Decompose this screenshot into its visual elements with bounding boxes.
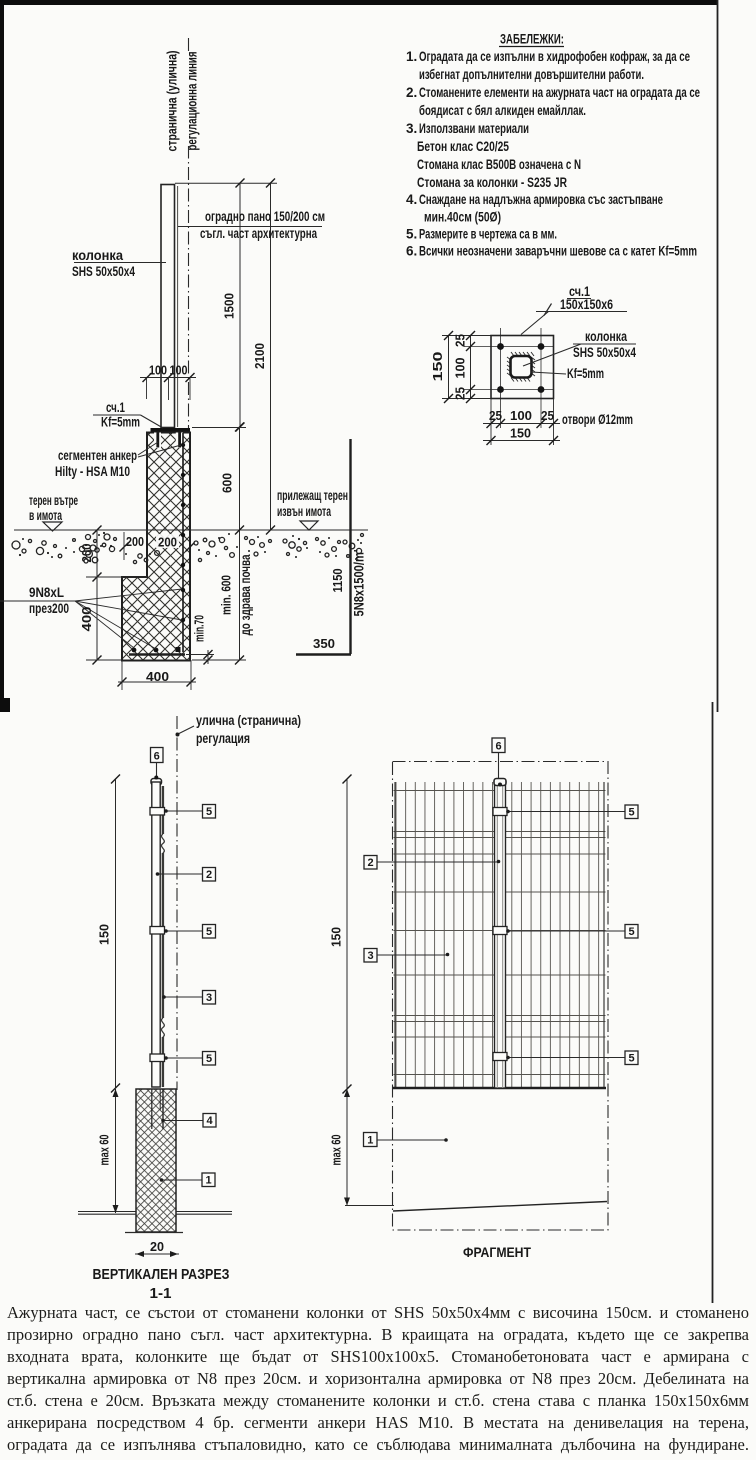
- svg-text:5: 5: [628, 1053, 634, 1065]
- step line horizontal with 350: [296, 653, 351, 655]
- hole axis vertical left: [500, 328, 502, 428]
- rebar squares on footing: [132, 647, 181, 652]
- svg-text:Стоманените елементи на ажурна: Стоманените елементи на ажурната част на…: [419, 85, 700, 100]
- leader to Kf label: [531, 372, 566, 374]
- underline of сч.1: [567, 298, 591, 300]
- svg-text:Бетон клас C20/25: Бетон клас C20/25: [417, 139, 509, 154]
- svg-text:5: 5: [206, 926, 212, 938]
- svg-text:100: 100: [454, 357, 468, 378]
- base plate (section): [151, 428, 191, 433]
- sheet frame left bar: [0, 0, 4, 700]
- marker box 5a (section): [203, 805, 216, 819]
- paragraph line 6: [7, 1413, 749, 1435]
- marker box 5c (fragment): [625, 1051, 638, 1065]
- panel break wave bottom: [161, 1018, 164, 1037]
- bottom dimension 25/100/25: [483, 423, 560, 425]
- svg-text:200: 200: [158, 536, 177, 550]
- svg-text:200: 200: [126, 535, 144, 549]
- dimension line 100/100: [140, 377, 196, 379]
- svg-text:350: 350: [313, 637, 335, 651]
- marker box 5c leader (section): [165, 1057, 202, 1059]
- marker box 2 (fragment): [364, 856, 377, 870]
- sheet frame top bar: [0, 0, 718, 5]
- svg-text:прилежащ терен: прилежащ терен: [277, 488, 348, 503]
- marker box 5b (section): [203, 925, 216, 939]
- svg-text:150: 150: [510, 427, 531, 441]
- mesh vertical wires: [395, 782, 605, 1088]
- concrete wall and footing (hatched): [122, 433, 190, 661]
- dimension line 1500: [239, 183, 241, 427]
- ground double line left: [78, 1211, 136, 1213]
- svg-text:400: 400: [80, 606, 94, 631]
- dimension line 150 (section): [115, 779, 117, 1088]
- leader line for panel label: [178, 226, 322, 228]
- PAGE2 SVG placeholder: [0, 698, 756, 1310]
- marker box 2 leader (fragment): [377, 861, 497, 863]
- right dimension line 600 / min600: [239, 427, 241, 660]
- svg-text:25: 25: [489, 409, 502, 423]
- level triangle right: [300, 521, 318, 530]
- extension lines under 100/100: [146, 378, 148, 400]
- svg-text:Използвани материали: Използвани материали: [419, 121, 529, 136]
- svg-text:3.: 3.: [406, 121, 417, 136]
- marker box 5a leader (fragment): [507, 811, 625, 813]
- svg-text:1500: 1500: [223, 293, 237, 319]
- marker box 4 leader (section): [164, 1120, 204, 1122]
- svg-text:SHS 50x50x4: SHS 50x50x4: [72, 264, 135, 279]
- svg-text:4.: 4.: [406, 192, 417, 207]
- mesh bottom rail thick line: [393, 1087, 606, 1090]
- marker box 3 leader (fragment): [377, 954, 447, 956]
- marker box 5b leader (section): [165, 930, 202, 932]
- svg-text:2: 2: [206, 869, 212, 881]
- paragraph line 3: [7, 1347, 749, 1369]
- leader to колонка label: [523, 344, 636, 366]
- segment anchor right: [176, 433, 183, 449]
- min.70 dimension: [207, 650, 209, 664]
- wall vertical rebar line: [182, 433, 184, 652]
- svg-text:извън имота: извън имота: [277, 504, 331, 519]
- svg-text:5.: 5.: [406, 227, 417, 242]
- bottom dimension 150: [483, 440, 560, 442]
- bolt holes: [497, 343, 544, 393]
- svg-text:странична (улична): странична (улична): [165, 51, 180, 152]
- svg-text:терен вътре: терен вътре: [29, 493, 78, 508]
- weld sleeve 2 (fragment): [493, 927, 507, 935]
- regulation dash-dot line: [188, 38, 190, 429]
- extension line top edge: [442, 335, 491, 337]
- leader from box 6 (fragment): [498, 753, 500, 779]
- bottom extension lines: [490, 399, 492, 446]
- marker box 1 leader (section): [162, 1179, 202, 1181]
- svg-text:25: 25: [454, 334, 468, 347]
- svg-text:колонка: колонка: [585, 329, 627, 344]
- top extension line: [175, 182, 277, 184]
- leader from box 6: [156, 763, 158, 779]
- svg-text:min. 600: min. 600: [220, 575, 234, 615]
- svg-text:9N8xL: 9N8xL: [29, 585, 64, 600]
- svg-text:оградно пано 150/200 см: оградно пано 150/200 см: [205, 209, 325, 224]
- svg-text:4: 4: [206, 1115, 213, 1127]
- step line vertical (right): [349, 439, 351, 654]
- sheet 2 right border line: [712, 702, 714, 1303]
- extension line bottom edge: [442, 398, 491, 400]
- svg-text:улична (странична): улична (странична): [196, 713, 301, 728]
- svg-text:2.: 2.: [406, 85, 417, 100]
- svg-text:150x150x6: 150x150x6: [560, 297, 613, 312]
- bottom dimension 400: [121, 660, 123, 690]
- marker box 5c leader (fragment): [507, 1057, 625, 1059]
- svg-text:5: 5: [206, 806, 212, 818]
- node dot on regulation line: [176, 733, 180, 737]
- svg-text:ВЕРТИКАЛЕН РАЗРЕЗ: ВЕРТИКАЛЕН РАЗРЕЗ: [93, 1266, 230, 1283]
- svg-text:SHS 50x50x4: SHS 50x50x4: [573, 345, 636, 360]
- dimension max 60 (fragment): [346, 1089, 348, 1206]
- svg-text:6: 6: [154, 751, 160, 763]
- svg-text:150: 150: [431, 351, 445, 381]
- svg-text:Kf=5mm: Kf=5mm: [567, 366, 604, 381]
- svg-text:отвори Ø12mm: отвори Ø12mm: [562, 412, 633, 427]
- marker box 3 leader (section): [164, 996, 202, 998]
- svg-text:20: 20: [150, 1240, 164, 1254]
- weld sleeve 3 (section): [150, 1054, 165, 1062]
- left outer dimension 150: [448, 336, 450, 399]
- svg-text:1: 1: [367, 1135, 373, 1147]
- svg-text:150: 150: [330, 927, 344, 947]
- hole axis line top row: [464, 346, 554, 348]
- marker box 5b (fragment): [625, 925, 638, 939]
- weld sleeve 1 (section): [150, 808, 165, 816]
- panel break wave top: [161, 834, 164, 853]
- svg-text:1150: 1150: [331, 568, 345, 592]
- hole axis line bottom row: [464, 389, 554, 391]
- weld sleeve 3 (fragment): [493, 1053, 507, 1061]
- weld sleeve 2 (section): [150, 927, 165, 935]
- scan mark top-left: [0, 698, 10, 712]
- SHS 50x50x4 tube section: [511, 356, 532, 378]
- extension line at plate level: [192, 427, 246, 429]
- paragraph line 2: [7, 1325, 749, 1347]
- svg-text:2: 2: [367, 857, 373, 869]
- weld fringe around SHS: [507, 352, 535, 382]
- svg-text:през200: през200: [29, 601, 69, 616]
- marker box 5a (fragment): [625, 805, 638, 819]
- marker box 1 leader (fragment): [377, 1139, 446, 1141]
- centre post (fragment): [495, 785, 506, 1088]
- weld symbol slash: [544, 304, 552, 316]
- svg-text:колонка: колонка: [72, 248, 123, 263]
- extension line at step: [86, 576, 147, 578]
- leader to plate: [141, 415, 164, 428]
- svg-text:25: 25: [454, 387, 468, 400]
- marker box 3 (section): [203, 991, 216, 1005]
- svg-text:3: 3: [367, 950, 373, 962]
- svg-text:ЗАБЕЛЕЖКИ:: ЗАБЕЛЕЖКИ:: [500, 32, 564, 47]
- extension line at footing bottom left: [86, 659, 122, 661]
- paragraph line 4: [7, 1369, 749, 1391]
- segment anchor left: [154, 433, 161, 449]
- svg-text:съгл. част архитектурна: съгл. част архитектурна: [200, 226, 317, 241]
- extension line at footing bottom right: [192, 659, 246, 661]
- regulation dash-dot line (section): [176, 716, 178, 1090]
- dimension max 60 (section): [115, 1089, 117, 1213]
- PAGE1 SVG placeholder: [0, 0, 756, 714]
- dimension line 150 (fragment): [346, 779, 348, 1089]
- marker box 6 (section): [151, 748, 164, 763]
- svg-text:Стомана клас B500B означена с: Стомана клас B500B означена с N: [417, 157, 581, 172]
- left inner dimension 25/100/25: [470, 336, 472, 399]
- svg-text:25: 25: [541, 409, 554, 423]
- fragment dash-dot boundary: [393, 762, 609, 1231]
- svg-text:регулация: регулация: [196, 731, 250, 746]
- mesh horizontal wires: [394, 791, 606, 1075]
- svg-text:Снаждане на надлъжна армировка: Снаждане на надлъжна армировка със застъ…: [419, 192, 663, 207]
- marker box 3 (fragment): [364, 949, 377, 963]
- node dot below cap: [498, 783, 502, 787]
- left vertical dimension line: [96, 530, 98, 660]
- post cap (fragment): [494, 779, 506, 786]
- svg-text:100: 100: [149, 364, 167, 378]
- rebar leader lines: [0, 600, 75, 602]
- marker box 2 (section): [203, 868, 216, 882]
- svg-text:регулационна линия: регулационна линия: [185, 52, 200, 151]
- steel column (post) SHS 50x50x4: [161, 185, 175, 428]
- marker box 2 leader (section): [158, 873, 202, 875]
- svg-text:1: 1: [205, 1175, 211, 1187]
- svg-text:100: 100: [510, 409, 532, 423]
- svg-text:до здрава почва: до здрава почва: [238, 554, 253, 635]
- svg-text:мин.40см (50Ø): мин.40см (50Ø): [424, 210, 501, 225]
- marker box 1 (fragment): [364, 1133, 378, 1147]
- svg-text:Размерите в чертежа са в мм.: Размерите в чертежа са в мм.: [419, 227, 557, 242]
- svg-text:6: 6: [495, 741, 501, 753]
- svg-text:Всички неозначени заваръчни ше: Всички неозначени заваръчни шевове са с …: [419, 244, 697, 259]
- foundation (section) hatched: [136, 1089, 176, 1232]
- plate 150x150x6 outline: [491, 336, 554, 399]
- post (section): [152, 782, 160, 1087]
- rebar dots on wall: [181, 443, 185, 622]
- level triangle left: [43, 522, 62, 531]
- underline of Kf label: [93, 414, 141, 416]
- svg-text:5: 5: [628, 807, 634, 819]
- svg-text:2100: 2100: [253, 343, 267, 369]
- soil scatter circles: [12, 534, 364, 564]
- soil scatter dots: [19, 532, 362, 560]
- paragraph line 7: [7, 1435, 749, 1457]
- mesh right edge wire: [603, 782, 605, 1088]
- post cap (section): [151, 779, 162, 786]
- svg-text:6.: 6.: [406, 244, 417, 259]
- paragraph line 5: [7, 1391, 749, 1413]
- svg-text:3: 3: [206, 992, 212, 1004]
- svg-text:600: 600: [221, 473, 235, 493]
- weld sleeve 1 (fragment): [493, 808, 507, 816]
- leader to regulation line: [178, 726, 194, 734]
- ground line: [14, 529, 368, 531]
- hole axis vertical right: [540, 328, 542, 428]
- marker box 5a leader (section): [165, 810, 202, 812]
- mesh left edge wire: [394, 782, 396, 1088]
- svg-text:Стомана за колонки - S235 JR: Стомана за колонки - S235 JR: [417, 175, 567, 190]
- paragraph line 1: [7, 1303, 749, 1325]
- svg-text:100: 100: [170, 364, 188, 378]
- svg-text:max 60: max 60: [330, 1134, 344, 1165]
- marker box 6 (fragment): [492, 738, 505, 753]
- marker box 5b leader (fragment): [507, 930, 625, 932]
- svg-text:max 60: max 60: [98, 1134, 112, 1165]
- svg-text:150: 150: [98, 924, 112, 945]
- ground double line right: [176, 1211, 232, 1213]
- panel edge thick line (section): [162, 786, 164, 1087]
- weld callout leader: [521, 312, 549, 335]
- svg-text:5: 5: [628, 926, 634, 938]
- sloping terrain line (fragment): [393, 1202, 607, 1212]
- anchor leader lines: [138, 442, 158, 455]
- svg-text:сч.1: сч.1: [106, 400, 125, 415]
- svg-text:сегментен анкер: сегментен анкер: [58, 448, 137, 463]
- ticks of 200 dim at ground: [120, 543, 129, 552]
- svg-text:избегнат допълнителни довършит: избегнат допълнителни довършителни работ…: [419, 67, 644, 82]
- marker box 1 (section): [202, 1173, 215, 1187]
- marker box 4 (section): [203, 1114, 216, 1128]
- leader line for column label: [74, 262, 166, 264]
- svg-text:1.: 1.: [406, 49, 417, 64]
- sheet frame right border line: [717, 0, 719, 712]
- svg-text:в имота: в имота: [29, 508, 62, 523]
- svg-text:5: 5: [206, 1053, 212, 1065]
- marker box 5c (section): [203, 1052, 216, 1066]
- dimension line 2100: [270, 183, 272, 530]
- svg-text:ФРАГМЕНТ: ФРАГМЕНТ: [463, 1244, 531, 1260]
- fence panel edge line: [177, 186, 179, 427]
- weld callout horizontal line: [536, 311, 627, 313]
- svg-text:400: 400: [146, 670, 169, 684]
- svg-text:1-1: 1-1: [150, 1285, 172, 1302]
- post embedded in foundation: [151, 1089, 153, 1129]
- svg-text:min.70: min.70: [193, 615, 207, 642]
- footing bottom rebar line: [129, 653, 185, 655]
- foundation bottom line: [125, 1232, 183, 1234]
- svg-text:Оградата да се изпълни в хидро: Оградата да се изпълни в хидрофобен кофр…: [419, 49, 690, 64]
- svg-text:5N8x1500/m': 5N8x1500/m': [352, 550, 367, 617]
- svg-text:Hilty - HSA M10: Hilty - HSA M10: [55, 464, 130, 479]
- svg-text:Kf=5mm: Kf=5mm: [101, 415, 140, 430]
- dim texts 200 200 at ground: [125, 534, 146, 548]
- svg-text:боядисат с бял алкиден емайлла: боядисат с бял алкиден емайллак.: [419, 103, 586, 118]
